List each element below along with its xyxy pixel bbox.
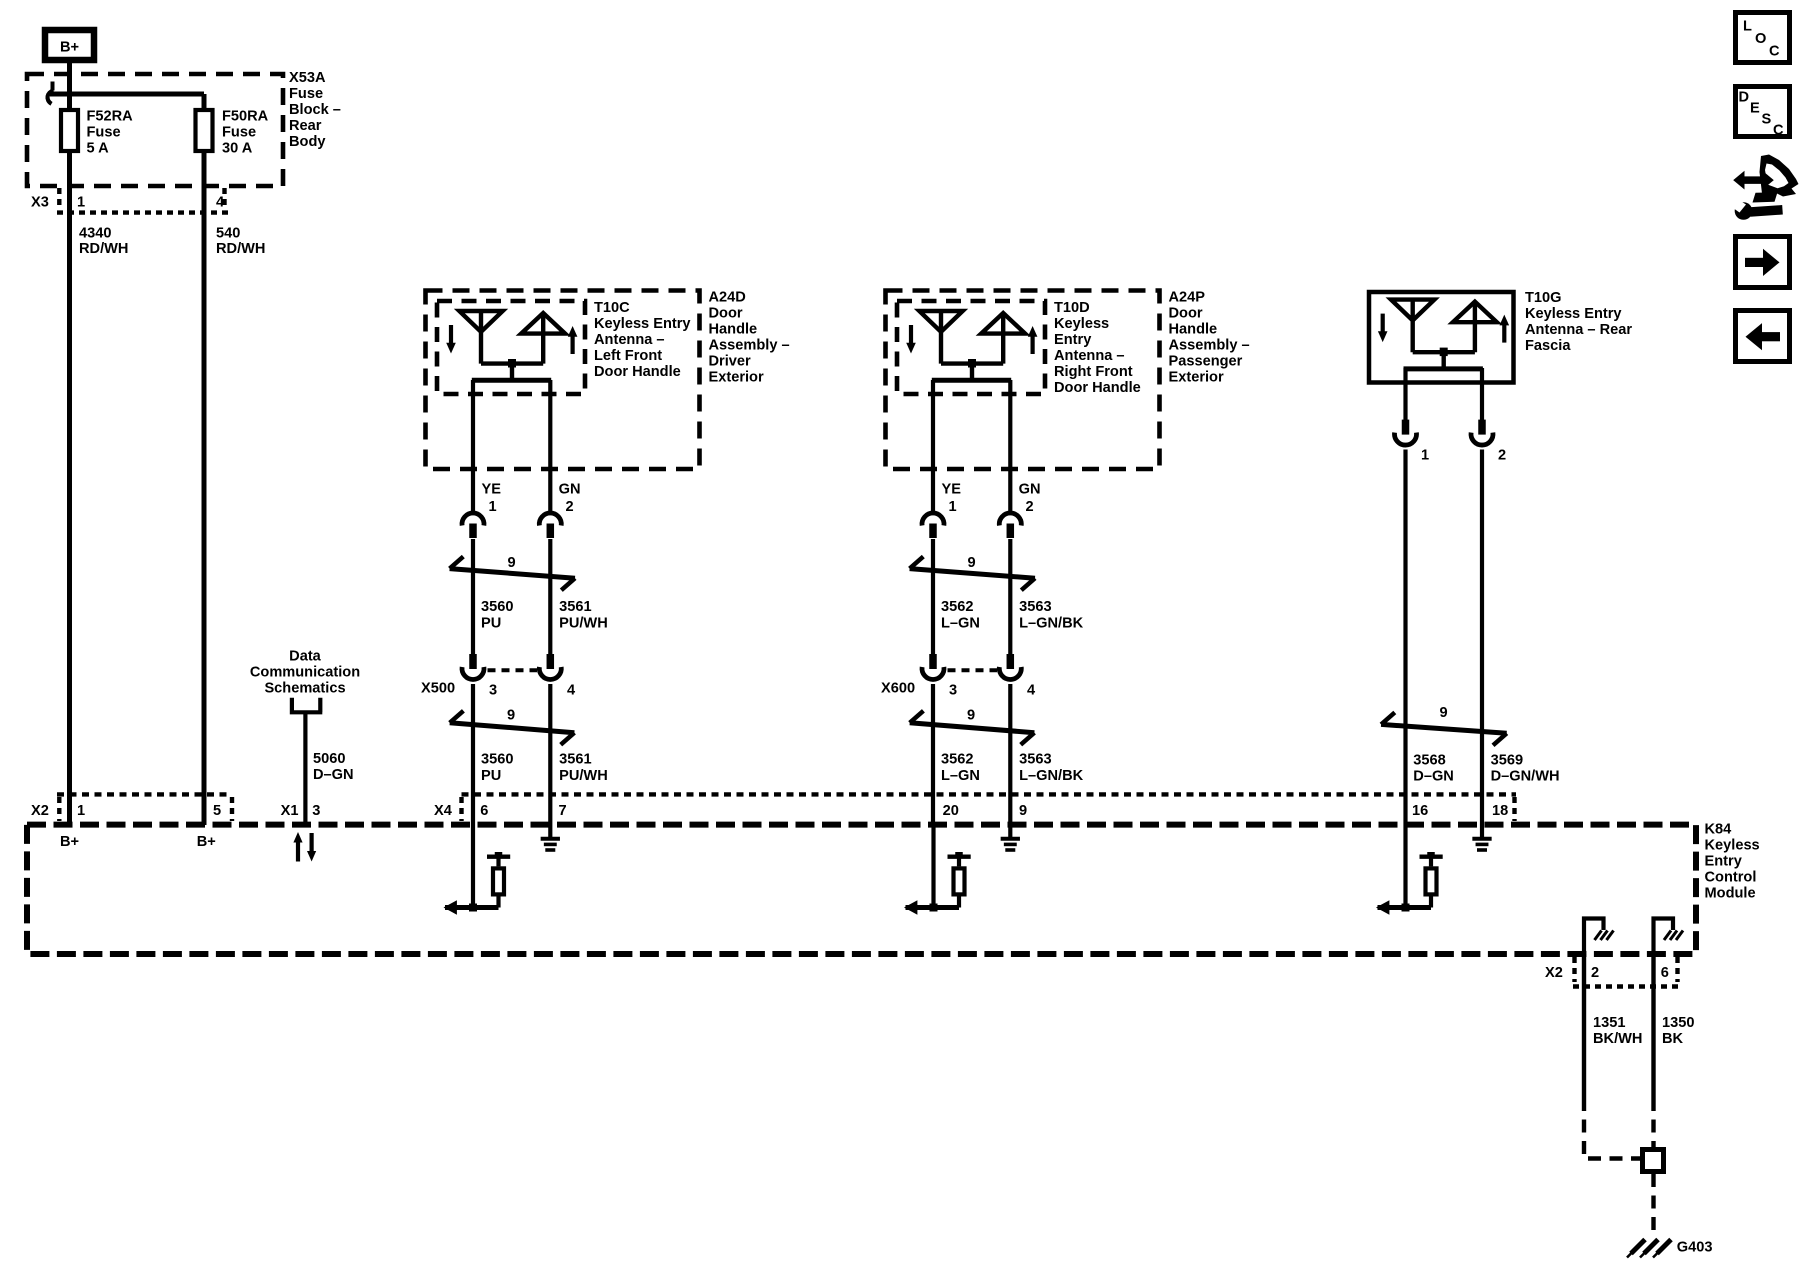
svg-text:D–GN/WH: D–GN/WH	[1491, 769, 1560, 785]
connector X500 link	[488, 668, 538, 672]
svg-text:16: 16	[1412, 803, 1428, 819]
wire T10G pin 2 stub	[1480, 368, 1484, 421]
svg-text:30 A: 30 A	[222, 141, 253, 157]
svg-text:YE: YE	[942, 482, 962, 498]
svg-text:Passenger: Passenger	[1169, 354, 1243, 370]
svg-text:3563: 3563	[1019, 599, 1051, 615]
svg-text:T10D: T10D	[1054, 300, 1090, 316]
icon forward arrow	[1736, 237, 1790, 288]
twisted pair crossing T10G	[1381, 705, 1507, 746]
svg-text:D–GN: D–GN	[1413, 769, 1454, 785]
label 1350 BK	[1662, 1015, 1694, 1047]
svg-text:3: 3	[312, 803, 320, 819]
label T10D	[1054, 300, 1141, 396]
svg-text:6: 6	[480, 803, 488, 819]
antenna symbol T10G	[1378, 300, 1509, 369]
svg-text:X2: X2	[1545, 965, 1563, 981]
wire 3563 lower segment	[1008, 684, 1012, 825]
svg-text:Rear: Rear	[289, 118, 322, 134]
svg-text:X4: X4	[434, 803, 453, 819]
svg-text:Entry: Entry	[1705, 854, 1743, 870]
serial data arrows	[293, 832, 316, 862]
wire label 3562 L&#8211;GN upper	[941, 599, 980, 632]
wire 3562 upper segment	[931, 539, 935, 655]
icon service harness	[1730, 155, 1799, 220]
svg-text:3562: 3562	[941, 752, 973, 768]
svg-text:C: C	[1773, 123, 1784, 139]
svg-text:1: 1	[77, 803, 85, 819]
twisted pair crossing lower	[910, 708, 1035, 745]
svg-text:4: 4	[1027, 683, 1036, 699]
svg-text:9: 9	[968, 555, 976, 571]
svg-text:PU: PU	[481, 768, 501, 784]
connector X4 (module top)	[434, 794, 1516, 821]
svg-text:9: 9	[967, 708, 975, 724]
icon LOC	[1736, 13, 1790, 63]
svg-text:5: 5	[213, 803, 221, 819]
svg-text:Door: Door	[709, 306, 743, 322]
svg-text:7: 7	[559, 803, 567, 819]
svg-text:20: 20	[943, 803, 959, 819]
label A24P	[1169, 290, 1250, 386]
svg-text:T10G: T10G	[1525, 290, 1562, 306]
svg-text:2: 2	[1591, 965, 1599, 981]
module internal chassis ground 1	[1584, 919, 1614, 955]
svg-text:L–GN: L–GN	[941, 616, 980, 632]
module internal ground pin 9	[1001, 825, 1020, 850]
wire YE pin1 of T10C	[471, 380, 475, 513]
svg-text:B+: B+	[60, 40, 79, 56]
svg-text:Assembly –: Assembly –	[709, 338, 790, 354]
svg-text:5 A: 5 A	[87, 141, 110, 157]
svg-text:S: S	[1762, 112, 1772, 128]
svg-text:PU/WH: PU/WH	[559, 616, 608, 632]
svg-text:A24D: A24D	[709, 290, 746, 306]
splice	[1643, 1150, 1664, 1172]
wire label 3560 PU lower	[481, 752, 513, 785]
wire 5060 D-GN	[303, 712, 307, 825]
svg-text:540: 540	[216, 226, 240, 242]
connector X2 (module bottom)	[1545, 957, 1679, 987]
svg-text:Fascia: Fascia	[1525, 338, 1571, 354]
wire B+ feed (circuit 4340)	[67, 63, 72, 825]
svg-text:Control: Control	[1705, 870, 1757, 886]
wire splice to G403	[1651, 1174, 1655, 1234]
wire label 3563 L&#8211;GN/BK upper	[1019, 599, 1084, 632]
svg-text:Body: Body	[289, 134, 326, 150]
svg-text:Keyless: Keyless	[1705, 838, 1760, 854]
svg-text:X600: X600	[881, 681, 915, 697]
svg-text:Door Handle: Door Handle	[594, 364, 681, 380]
svg-text:1351: 1351	[1593, 1015, 1625, 1031]
svg-text:Fuse: Fuse	[222, 125, 256, 141]
twisted pair crossing upper	[910, 555, 1035, 590]
ground G403	[1627, 1240, 1713, 1258]
svg-text:T10C: T10C	[594, 300, 630, 316]
svg-text:Module: Module	[1705, 886, 1756, 902]
wire label 3562 L&#8211;GN lower	[941, 752, 980, 785]
module internal ground pin 7	[541, 825, 560, 850]
svg-text:Door: Door	[1169, 306, 1203, 322]
icon back arrow	[1736, 311, 1790, 362]
svg-text:Left Front: Left Front	[594, 348, 662, 364]
wire 3562 lower segment	[931, 684, 935, 825]
svg-text:6: 6	[1661, 965, 1669, 981]
svg-text:O: O	[1755, 31, 1766, 47]
svg-text:Fuse: Fuse	[87, 125, 121, 141]
door handle connector pin 1	[922, 513, 944, 538]
connector X600 link	[948, 668, 998, 672]
inline connector X500 pin 4	[539, 654, 561, 679]
svg-text:3562: 3562	[941, 599, 973, 615]
connector X3	[31, 188, 231, 213]
svg-text:X1: X1	[281, 803, 299, 819]
svg-text:1: 1	[77, 195, 85, 211]
svg-text:Keyless Entry: Keyless Entry	[1525, 306, 1622, 322]
wire label 3560 PU upper	[481, 599, 513, 632]
label A24D	[709, 290, 790, 386]
connector X2 (module top)	[31, 794, 232, 821]
wire label 3568 D-GN	[1413, 753, 1454, 785]
svg-text:L–GN: L–GN	[941, 768, 980, 784]
svg-text:Communication: Communication	[250, 665, 360, 681]
label T10G	[1525, 290, 1632, 354]
antenna symbol T10D	[906, 311, 1037, 380]
svg-text:4: 4	[216, 195, 225, 211]
module internal ground pin 18	[1472, 825, 1491, 850]
label X53A Fuse Block - Rear Body	[289, 70, 341, 150]
door handle assembly A24D dashed box	[426, 291, 700, 470]
branch wire to F50RA	[50, 92, 204, 97]
keyless entry antenna T10D dashed box	[897, 301, 1045, 394]
svg-text:RD/WH: RD/WH	[216, 241, 265, 257]
svg-text:F52RA: F52RA	[87, 109, 134, 125]
keyless entry antenna T10G box	[1369, 292, 1514, 383]
svg-text:G403: G403	[1677, 1240, 1713, 1256]
svg-text:X3: X3	[31, 195, 49, 211]
module internal resistor pin 20	[904, 825, 971, 915]
svg-text:9: 9	[508, 555, 516, 571]
inline connector X600 pin 4	[999, 654, 1021, 679]
module internal chassis ground 2	[1654, 919, 1684, 955]
fuse block X53A dashed box	[27, 74, 283, 186]
svg-text:Assembly –: Assembly –	[1169, 338, 1250, 354]
svg-text:GN: GN	[559, 482, 581, 498]
svg-text:9: 9	[1019, 803, 1027, 819]
svg-text:2: 2	[1026, 499, 1034, 515]
wire label 3561 PU/WH upper	[559, 599, 608, 632]
svg-text:3568: 3568	[1413, 753, 1445, 769]
branch hook tap	[48, 82, 54, 104]
wire label 540 RD/WH	[216, 226, 265, 258]
svg-text:1350: 1350	[1662, 1015, 1694, 1031]
svg-text:3560: 3560	[481, 599, 513, 615]
keyless entry control module K84 dashed box	[27, 825, 1696, 954]
fuse F50RA	[196, 110, 213, 151]
svg-text:Exterior: Exterior	[709, 370, 764, 386]
svg-text:1: 1	[489, 499, 497, 515]
svg-text:Antenna –: Antenna –	[1054, 348, 1125, 364]
antenna symbol T10C	[446, 311, 577, 380]
svg-text:C: C	[1769, 44, 1780, 60]
svg-text:B+: B+	[60, 834, 79, 850]
svg-text:L–GN/BK: L–GN/BK	[1019, 768, 1084, 784]
wire 3568 D-GN	[1403, 450, 1407, 826]
connector X1 pin 3	[281, 803, 321, 819]
label GN 2	[1019, 482, 1041, 516]
svg-text:B+: B+	[197, 834, 216, 850]
svg-text:D–GN: D–GN	[313, 767, 354, 783]
door handle connector pin 2	[999, 513, 1021, 538]
svg-text:Schematics: Schematics	[264, 681, 345, 697]
icon DESC	[1736, 87, 1790, 139]
label X600 3 4	[881, 681, 1036, 699]
svg-text:3561: 3561	[559, 599, 591, 615]
wire 3560 lower segment	[471, 684, 475, 825]
svg-text:L–GN/BK: L–GN/BK	[1019, 616, 1084, 632]
door handle connector pin 1	[462, 513, 484, 538]
wire 3569 D-GN/WH	[1480, 450, 1484, 826]
svg-text:2: 2	[566, 499, 574, 515]
svg-text:X500: X500	[421, 681, 455, 697]
svg-text:Data: Data	[289, 649, 322, 665]
svg-text:1: 1	[1421, 448, 1429, 464]
label YE 1	[482, 482, 502, 516]
wire 3563 upper segment	[1008, 539, 1012, 655]
wire label 4340 RD/WH	[79, 226, 128, 258]
svg-text:3563: 3563	[1019, 752, 1051, 768]
wire 1351 BK/WH	[1582, 954, 1586, 1098]
svg-text:9: 9	[507, 708, 515, 724]
off-page reference bracket	[290, 698, 323, 713]
label X500 3 4	[421, 681, 576, 699]
svg-text:PU/WH: PU/WH	[559, 768, 608, 784]
svg-text:Right Front: Right Front	[1054, 364, 1133, 380]
door handle connector pin 2	[539, 513, 561, 538]
label YE 1	[942, 482, 962, 516]
svg-text:RD/WH: RD/WH	[79, 241, 128, 257]
svg-text:3560: 3560	[481, 752, 513, 768]
svg-text:Fuse: Fuse	[289, 86, 323, 102]
wire T10G pin 1 stub	[1403, 368, 1407, 421]
svg-text:Block –: Block –	[289, 102, 341, 118]
twisted pair crossing upper	[450, 555, 575, 590]
wire YE pin1 of T10D	[931, 380, 935, 513]
B+ power terminal	[45, 30, 94, 60]
wire 1350 BK	[1651, 954, 1655, 1098]
label T10C	[594, 300, 691, 380]
svg-text:D: D	[1739, 90, 1750, 106]
inline connector X600 pin 3	[922, 654, 944, 679]
svg-text:5060: 5060	[313, 751, 345, 767]
keyless entry antenna T10C dashed box	[437, 301, 585, 394]
svg-text:1: 1	[949, 499, 957, 515]
svg-text:Antenna –: Antenna –	[594, 332, 665, 348]
wire GN pin2 of T10C	[548, 380, 552, 513]
svg-text:2: 2	[1498, 448, 1506, 464]
svg-text:4340: 4340	[79, 226, 111, 242]
wire 540 vertical (circuit 540)	[202, 94, 207, 825]
svg-text:F50RA: F50RA	[222, 109, 269, 125]
svg-text:Entry: Entry	[1054, 332, 1092, 348]
inline connector X500 pin 3	[462, 654, 484, 679]
svg-text:3: 3	[949, 683, 957, 699]
T10G connector pin 1	[1395, 420, 1430, 464]
svg-text:9: 9	[1440, 705, 1448, 721]
label K84 Keyless Entry Control Module	[1705, 822, 1760, 902]
svg-text:Keyless: Keyless	[1054, 316, 1109, 332]
svg-text:Keyless Entry: Keyless Entry	[594, 316, 691, 332]
wire label 3563 L&#8211;GN/BK lower	[1019, 752, 1084, 785]
wire label 3561 PU/WH lower	[559, 752, 608, 785]
wire 3560 upper segment	[471, 539, 475, 655]
svg-text:Antenna – Rear: Antenna – Rear	[1525, 322, 1632, 338]
svg-text:3: 3	[489, 683, 497, 699]
svg-text:Handle: Handle	[709, 322, 758, 338]
svg-text:Door Handle: Door Handle	[1054, 380, 1141, 396]
svg-text:4: 4	[567, 683, 576, 699]
svg-text:X53A: X53A	[289, 70, 326, 86]
wire GN pin2 of T10D	[1008, 380, 1012, 513]
svg-text:18: 18	[1492, 803, 1508, 819]
label Data Communication Schematics	[250, 649, 360, 697]
label F50RA Fuse 30 A	[222, 109, 269, 157]
svg-text:BK/WH: BK/WH	[1593, 1031, 1642, 1047]
door handle assembly A24P dashed box	[886, 291, 1160, 470]
label 5060 D-GN	[313, 751, 354, 783]
svg-text:Handle: Handle	[1169, 322, 1218, 338]
svg-text:3561: 3561	[559, 752, 591, 768]
module internal resistor pin 6	[444, 825, 511, 915]
svg-text:3569: 3569	[1491, 753, 1523, 769]
svg-text:Driver: Driver	[709, 354, 752, 370]
svg-text:E: E	[1750, 101, 1760, 117]
label 1351 BK/WH	[1593, 1015, 1642, 1047]
label GN 2	[559, 482, 581, 516]
twisted pair crossing lower	[450, 708, 575, 745]
svg-text:L: L	[1743, 19, 1752, 35]
svg-text:YE: YE	[482, 482, 502, 498]
svg-text:Exterior: Exterior	[1169, 370, 1224, 386]
svg-text:BK: BK	[1662, 1031, 1684, 1047]
fuse F52RA	[61, 110, 78, 151]
wire 3561 upper segment	[548, 539, 552, 655]
module internal resistor pin 16	[1376, 825, 1443, 915]
svg-text:A24P: A24P	[1169, 290, 1206, 306]
svg-text:K84: K84	[1705, 822, 1733, 838]
svg-text:X2: X2	[31, 803, 49, 819]
wire 3561 lower segment	[548, 684, 552, 825]
wire label 3569 D-GN/WH	[1491, 753, 1560, 785]
label F52RA Fuse 5 A	[87, 109, 134, 157]
svg-text:GN: GN	[1019, 482, 1041, 498]
T10G connector pin 2	[1471, 420, 1506, 464]
svg-text:PU: PU	[481, 616, 501, 632]
